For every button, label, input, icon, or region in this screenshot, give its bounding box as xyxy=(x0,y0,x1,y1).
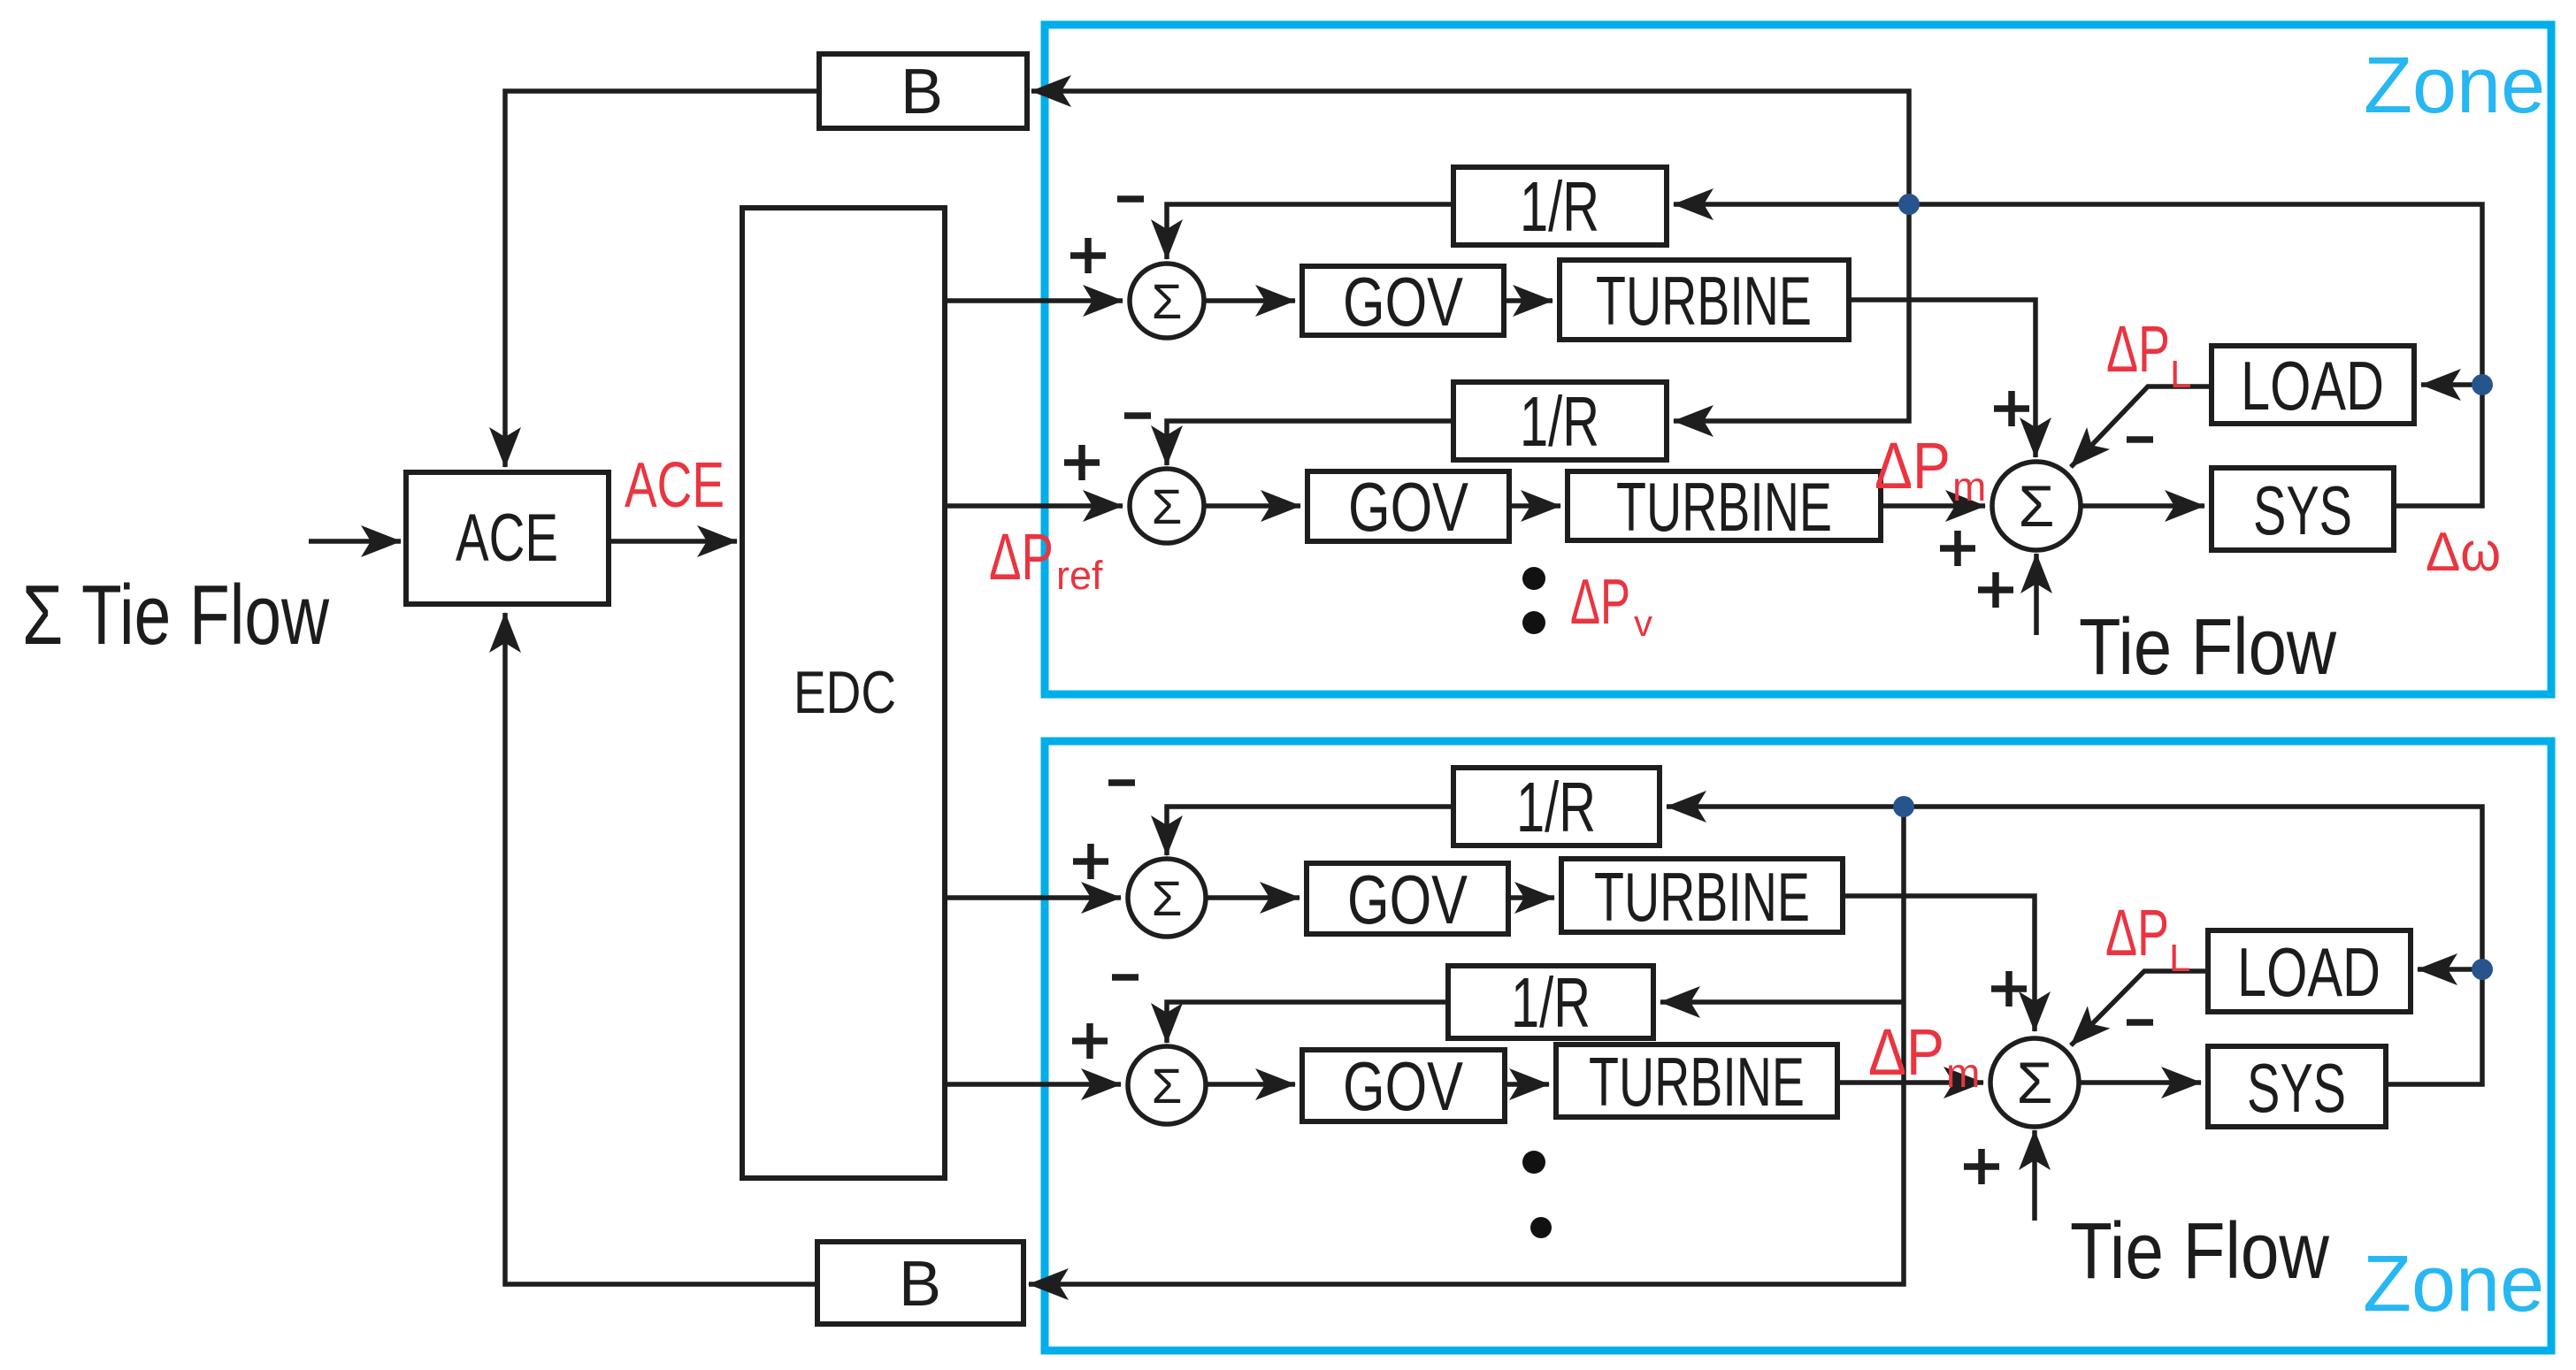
plus sign above SB1 xyxy=(1994,391,2029,426)
svg-text:Tie Flow: Tie Flow xyxy=(2079,603,2337,692)
summer S4 xyxy=(1128,1046,1206,1124)
wire: TURBINE3 output to big summer SB2 top xyxy=(1843,896,2035,1031)
minus sign above S2 xyxy=(1124,412,1151,419)
svg-text:TURBINE: TURBINE xyxy=(1616,468,1832,546)
wire: feedback branch down to 1/R-2 xyxy=(1674,204,1909,421)
svg-text:Σ: Σ xyxy=(1152,478,1183,534)
svg-text:Δω: Δω xyxy=(2426,522,2501,583)
wire: GOV2 to TURBINE2 xyxy=(1509,503,1560,509)
block TURBINE3 xyxy=(1561,858,1843,936)
junction node at LOAD1 feed xyxy=(2472,374,2493,395)
minus sign at LOAD1 diagonal xyxy=(2127,436,2153,443)
block TURBINE1 xyxy=(1560,260,1849,340)
svg-text:EDC: EDC xyxy=(793,659,896,726)
wire: S2 to GOV2 xyxy=(1204,503,1300,509)
junction node on feedback (zone1 left) xyxy=(1898,194,1920,215)
block GOV4 xyxy=(1302,1047,1505,1125)
block 1/R-3 xyxy=(1453,768,1660,846)
svg-text:ΔP: ΔP xyxy=(2105,896,2169,969)
wire: B1 output to ACE top xyxy=(505,91,819,467)
label dPref (red) xyxy=(989,520,1103,598)
svg-text:v: v xyxy=(1634,602,1652,644)
svg-text:L: L xyxy=(2169,937,2190,980)
svg-text:1/R: 1/R xyxy=(1516,768,1596,846)
plus sign at S1 xyxy=(1070,238,1106,273)
plus sign at S4 xyxy=(1072,1023,1108,1059)
svg-text:Σ: Σ xyxy=(1152,870,1183,926)
wire: 1/R-3 to S3 top xyxy=(1167,807,1453,855)
block 1/R-1 xyxy=(1453,167,1667,246)
ellipsis dot zone1 lower xyxy=(1522,611,1545,634)
wire: TURBINE4 to big summer SB2 xyxy=(1837,1080,1983,1085)
label dPL (red, zone1) xyxy=(2106,312,2191,396)
block 1/R-4 xyxy=(1448,963,1653,1042)
wire: tie flow input into SB1 bottom xyxy=(2034,554,2039,635)
svg-text:ACE: ACE xyxy=(456,501,558,576)
label dPm (red, zone1) xyxy=(1874,429,1986,509)
svg-text:ΔP: ΔP xyxy=(2106,312,2170,386)
svg-text:LOAD: LOAD xyxy=(2237,933,2380,1011)
wire: 1/R-4 to S4 top xyxy=(1167,1002,1448,1043)
plus sign above SB2 xyxy=(1991,971,2027,1006)
wire: feedback branch down to B2 xyxy=(1029,807,1904,1284)
wire: GOV3 to TURBINE3 xyxy=(1508,895,1554,900)
plus sign at SB2 bottom input xyxy=(1964,1149,1999,1184)
svg-text:ref: ref xyxy=(1056,553,1103,598)
wire: EDC to summer S1 xyxy=(945,298,1123,303)
minus sign above S4 xyxy=(1112,974,1138,981)
svg-text:1/R: 1/R xyxy=(1511,963,1591,1042)
svg-text:ΔP: ΔP xyxy=(989,520,1054,593)
wire: feedback branch up to B1 xyxy=(1031,91,1909,204)
block SYS2 xyxy=(2208,1046,2386,1127)
wire: EDC to summer S4 xyxy=(945,1082,1121,1087)
wire: 1/R-2 to S2 top xyxy=(1167,421,1453,465)
svg-text:1/R: 1/R xyxy=(1520,382,1599,461)
svg-text:Σ: Σ xyxy=(2017,1050,2053,1115)
wire: B2 output to ACE bottom xyxy=(505,613,817,1284)
svg-text:Σ Tie Flow: Σ Tie Flow xyxy=(22,568,330,662)
svg-text:GOV: GOV xyxy=(1343,263,1463,341)
label dPv (red, zone1) xyxy=(1570,567,1652,644)
wire: feedback into LOAD1 xyxy=(2421,382,2482,387)
block B1 (top) xyxy=(819,54,1027,128)
block B2 (bottom) xyxy=(817,1242,1023,1324)
plus sign at S3 xyxy=(1073,844,1108,879)
svg-text:ΔP: ΔP xyxy=(1570,567,1630,638)
block LOAD1 xyxy=(2212,346,2414,425)
block 1/R-2 xyxy=(1453,382,1667,461)
block EDC xyxy=(742,208,945,1178)
svg-text:Zone: Zone xyxy=(2364,42,2545,130)
big summer SB2 xyxy=(1990,1038,2079,1127)
plus sign at S2 xyxy=(1064,445,1100,480)
minus sign at LOAD2 diagonal xyxy=(2127,1019,2153,1026)
svg-text:TURBINE: TURBINE xyxy=(1594,858,1810,936)
block GOV1 xyxy=(1302,263,1504,341)
svg-text:SYS: SYS xyxy=(2253,471,2352,549)
svg-text:m: m xyxy=(1946,1050,1980,1096)
wire: SB1 to SYS1 xyxy=(2081,503,2204,509)
wire: SYS1 feedback loop to 1/R-1 xyxy=(1674,204,2482,506)
minus sign above S1 xyxy=(1117,195,1144,203)
svg-text:Σ: Σ xyxy=(2019,473,2055,539)
summer S1 xyxy=(1130,264,1204,338)
svg-text:B: B xyxy=(899,1249,941,1320)
svg-text:Σ: Σ xyxy=(1152,1058,1183,1114)
wire: EDC to summer S3 xyxy=(945,895,1121,900)
svg-text:m: m xyxy=(1952,463,1986,509)
wire: 1/R-1 to S1 top xyxy=(1167,204,1453,259)
svg-text:ΔP: ΔP xyxy=(1874,429,1951,502)
plus sign left-below SB1 xyxy=(1940,531,1975,566)
svg-text:Σ: Σ xyxy=(1152,273,1183,329)
wire: feedback branch to 1/R-4 xyxy=(1660,999,1904,1005)
wire: input stub into ACE xyxy=(309,539,401,544)
wire: ACE to EDC xyxy=(609,539,737,544)
svg-text:Zone: Zone xyxy=(2363,1240,2544,1328)
ellipsis dot zone2 lower xyxy=(1530,1217,1552,1238)
block TURBINE4 xyxy=(1556,1043,1837,1121)
svg-text:L: L xyxy=(2170,353,2191,396)
svg-text:1/R: 1/R xyxy=(1520,167,1599,246)
wire: TURBINE1 output to big summer SB1 top xyxy=(1849,300,2035,457)
block ACE xyxy=(406,472,609,604)
wire: LOAD2 output diagonal into SB2 xyxy=(2071,971,2208,1045)
wire: LOAD1 output diagonal into SB1 xyxy=(2071,387,2212,467)
wire: GOV4 to TURBINE4 xyxy=(1505,1082,1549,1087)
block GOV3 xyxy=(1307,861,1508,938)
junction node at LOAD2 feed xyxy=(2472,959,2493,980)
plus sign at SB1 bottom input xyxy=(1978,572,2013,608)
wire: SYS2 feedback loop to 1/R-3 xyxy=(1667,807,2482,1084)
wire: SB2 to SYS2 xyxy=(2079,1080,2201,1085)
wire: S1 to GOV1 xyxy=(1204,298,1295,303)
big summer SB1 xyxy=(1992,462,2081,550)
minus sign above S3 xyxy=(1108,779,1135,786)
block TURBINE2 xyxy=(1568,468,1881,546)
wire: S3 to GOV3 xyxy=(1206,895,1299,900)
wire: TURBINE2 to big summer SB1 xyxy=(1881,503,1985,509)
wire: tie flow input into SB2 bottom xyxy=(2032,1130,2037,1221)
wire: S4 to GOV4 xyxy=(1206,1082,1295,1087)
summer S2 xyxy=(1130,469,1204,543)
junction node on feedback (zone2 left) xyxy=(1893,796,1914,817)
summer S3 xyxy=(1128,859,1206,937)
svg-text:B: B xyxy=(901,57,943,127)
wire: EDC to summer S2 xyxy=(945,503,1123,509)
svg-text:GOV: GOV xyxy=(1343,1047,1463,1125)
svg-text:TURBINE: TURBINE xyxy=(1596,262,1812,340)
zone 2 boundary (bottom cyan box) xyxy=(1045,741,2551,1351)
block SYS1 xyxy=(2212,468,2394,550)
svg-text:Tie Flow: Tie Flow xyxy=(2070,1207,2330,1296)
wire: feedback into LOAD2 xyxy=(2418,967,2482,972)
ellipsis dot zone2 upper xyxy=(1522,1151,1545,1174)
svg-text:GOV: GOV xyxy=(1347,861,1468,938)
block GOV2 xyxy=(1307,468,1509,546)
label dPL (red, zone2) xyxy=(2105,896,2190,980)
ellipsis dot zone1 upper xyxy=(1522,567,1545,590)
svg-text:LOAD: LOAD xyxy=(2241,347,2384,425)
svg-text:ACE: ACE xyxy=(625,450,724,521)
svg-text:ΔP: ΔP xyxy=(1868,1015,1944,1089)
zone 1 boundary (top cyan box) xyxy=(1045,25,2551,694)
svg-text:GOV: GOV xyxy=(1348,468,1468,546)
svg-text:SYS: SYS xyxy=(2247,1049,2346,1127)
wire: GOV1 to TURBINE1 xyxy=(1504,298,1552,303)
svg-text:TURBINE: TURBINE xyxy=(1589,1043,1805,1121)
label dPm (red, zone2) xyxy=(1868,1015,1980,1096)
block LOAD2 xyxy=(2208,930,2411,1012)
